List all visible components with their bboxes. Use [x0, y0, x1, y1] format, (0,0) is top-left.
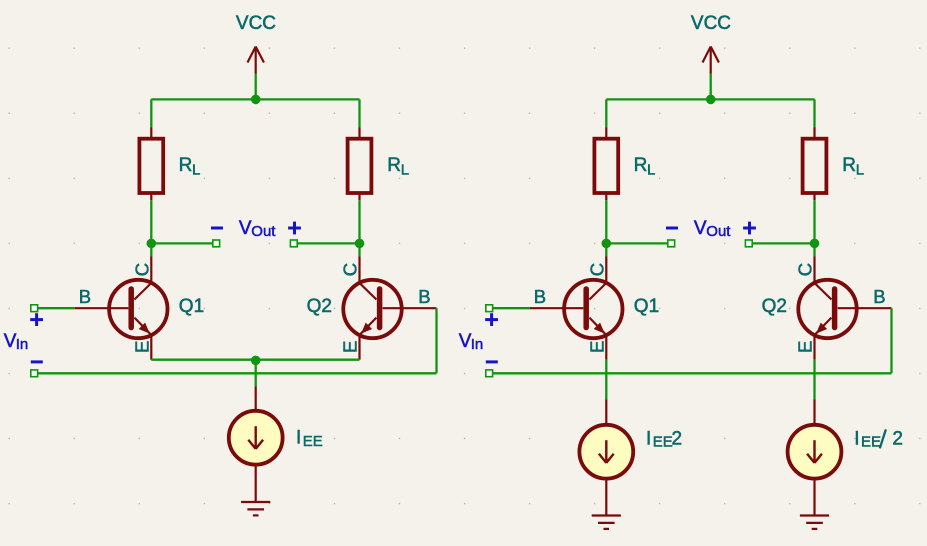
- wire-end square Vin- (left circuit): [31, 370, 38, 377]
- wire Vin+ to Q1 base (left circuit): [34, 307, 74, 309]
- wire-end square Vin+ (right circuit): [486, 305, 493, 312]
- pin top of IEE/2 (right circuit): [813, 399, 815, 426]
- junction VCC rail (right circuit): [706, 95, 716, 105]
- wire RL to Q2 collector (left circuit): [358, 200, 360, 256]
- wire riser to Q2 base (right circuit): [890, 308, 892, 373]
- wire RL to Q1 collector (left circuit): [150, 200, 152, 256]
- wire emitter bus to IEE (left circuit): [255, 360, 257, 386]
- wire-end square Vin- (right circuit): [486, 370, 493, 377]
- minus sign Vout (right circuit): [666, 227, 678, 230]
- svg-text:Q2: Q2: [762, 296, 787, 317]
- wire Vin- to Q2 base (left circuit): [34, 372, 436, 374]
- transistor Q1 (right circuit): [564, 257, 622, 360]
- wire RL to Q1 collector (right circuit): [605, 200, 607, 256]
- wire Vout- stub (right circuit): [606, 242, 671, 244]
- power symbol VCC arrow (left circuit): [248, 47, 264, 74]
- svg-text:E: E: [795, 341, 816, 353]
- wire Q2 emitter down (right circuit): [813, 360, 815, 400]
- junction Vout- node (right circuit): [602, 239, 612, 249]
- wire RL to Q2 collector (right circuit): [813, 200, 815, 256]
- minus sign Vin (left circuit): [31, 360, 43, 363]
- svg-text:E: E: [131, 341, 152, 353]
- svg-text:Q2: Q2: [307, 296, 332, 317]
- plus sign Vout (left circuit): [288, 222, 301, 235]
- wire-end square Vout+ (left circuit): [290, 240, 297, 247]
- plus sign Vin (right circuit): [485, 313, 498, 326]
- pin top of IEE2 (right circuit): [605, 399, 607, 426]
- current source IEE (left circuit): [229, 411, 283, 465]
- pin B lead of Q2 (left circuit): [383, 307, 437, 309]
- junction emitter bus (left circuit): [251, 356, 261, 366]
- transistor Q2 (left circuit): [343, 257, 401, 360]
- svg-text:C: C: [340, 263, 361, 276]
- pin bottom of IEE2 to ground (right circuit): [605, 478, 607, 516]
- svg-text:B: B: [79, 286, 91, 307]
- svg-text:E: E: [586, 341, 607, 353]
- junction Vout+ node (right circuit): [810, 239, 820, 249]
- current source IEE/2 (right circuit): [788, 425, 842, 479]
- svg-text:VCC: VCC: [236, 13, 276, 34]
- transistor Q2 (right circuit): [798, 257, 856, 360]
- svg-text:E: E: [340, 341, 361, 353]
- wire-end square Vin+ (left circuit): [31, 305, 38, 312]
- wire-end square Vout- (left circuit): [213, 240, 220, 247]
- resistor RL (left, left circuit): [139, 128, 163, 201]
- resistor RL (left, right circuit): [594, 128, 618, 201]
- wire Vin- to Q2 base (right circuit): [489, 372, 891, 374]
- svg-text:VCC: VCC: [691, 13, 731, 34]
- pin B lead of Q1 (right circuit): [530, 307, 584, 309]
- junction VCC rail (left circuit): [251, 95, 261, 105]
- transistor Q1 (left circuit): [109, 257, 167, 360]
- plus sign Vin (left circuit): [30, 313, 43, 326]
- wire to right RL (right circuit): [813, 99, 815, 127]
- wire VCC stub (right circuit): [710, 74, 712, 100]
- wire Vin+ to Q1 base (right circuit): [489, 307, 530, 309]
- wire to right RL (left circuit): [358, 99, 360, 127]
- wire riser to Q2 base (left circuit): [435, 308, 437, 373]
- pin B lead of Q1 (left circuit): [75, 307, 129, 309]
- current source IEE2 (right circuit): [579, 425, 633, 479]
- svg-text:C: C: [586, 263, 607, 276]
- wire Q1 emitter down (right circuit): [605, 360, 607, 400]
- wire Vout+ stub (left circuit): [294, 242, 360, 244]
- pin B lead of Q2 (right circuit): [838, 307, 892, 309]
- wire to left RL (left circuit): [150, 99, 152, 127]
- wire Vout- stub (left circuit): [151, 242, 216, 244]
- pin top of IEE (left circuit): [255, 387, 257, 413]
- wire VCC rail (left circuit): [151, 98, 359, 100]
- resistor RL (right, left circuit): [348, 128, 372, 201]
- svg-text:B: B: [873, 286, 885, 307]
- power symbol VCC arrow (right circuit): [703, 47, 719, 74]
- svg-text:B: B: [418, 286, 430, 307]
- junction Vout+ node (left circuit): [355, 239, 365, 249]
- minus sign Vout (left circuit): [211, 227, 223, 230]
- wire Vout+ stub (right circuit): [749, 242, 815, 244]
- wire-end square Vout+ (right circuit): [745, 240, 752, 247]
- wire VCC stub (left circuit): [255, 74, 257, 100]
- minus sign Vin (right circuit): [486, 360, 498, 363]
- plus sign Vout (right circuit): [743, 222, 756, 235]
- wire emitter bus (left circuit): [151, 359, 359, 361]
- svg-text:Q1: Q1: [179, 296, 204, 317]
- resistor RL (right, right circuit): [803, 128, 827, 201]
- wire to left RL (right circuit): [605, 99, 607, 127]
- junction Vout- node (left circuit): [147, 239, 157, 249]
- ground (under IEE/2, right circuit): [800, 516, 829, 529]
- svg-text:C: C: [131, 263, 152, 276]
- svg-text:C: C: [795, 263, 816, 276]
- ground (tail, left circuit): [241, 502, 270, 515]
- svg-text:Q1: Q1: [634, 296, 659, 317]
- wire VCC rail (right circuit): [606, 98, 814, 100]
- pin bottom of IEE to ground (left circuit): [255, 464, 257, 503]
- wire-end square Vout- (right circuit): [668, 240, 675, 247]
- svg-text:B: B: [534, 286, 546, 307]
- pin bottom of IEE/2 to ground (right circuit): [813, 478, 815, 516]
- ground (under IEE2, right circuit): [592, 516, 621, 529]
